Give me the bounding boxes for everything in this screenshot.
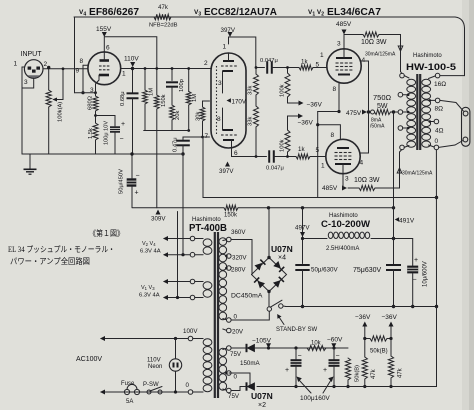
svg-text:10μ/600V: 10μ/600V — [423, 261, 429, 287]
ground symbol — [29, 154, 31, 169]
wire 0.68u drop — [132, 69, 134, 94]
resistor 10k bias — [307, 345, 326, 350]
wire front ground rail — [22, 153, 183, 155]
pointer cap1 — [299, 380, 311, 393]
svg-text:パワー・アンプ全回路図: パワー・アンプ全回路図 — [10, 256, 90, 266]
wire 50u to B+ rail — [131, 187, 133, 208]
svg-text:+: + — [323, 367, 327, 374]
wire 1M2 to bus — [188, 105, 190, 131]
svg-text:50k(B): 50k(B) — [355, 365, 361, 382]
potentiometer VR1 100k(A) — [46, 90, 51, 107]
rectifier bridge U07N — [252, 258, 287, 292]
ECC82 triode2 grid dashes — [221, 134, 224, 136]
svg-text:STAND-BY SW: STAND-BY SW — [276, 327, 317, 333]
svg-text:280V: 280V — [231, 267, 246, 274]
wire 0 HV to standby — [231, 311, 269, 320]
wire 10ohm to OPT bottom — [375, 152, 400, 188]
switch P-SW — [147, 390, 151, 394]
wire EF86 cathode to 680 — [95, 84, 97, 96]
wire input grid line — [43, 68, 88, 70]
svg-text:−60V: −60V — [327, 337, 343, 344]
svg-text:0: 0 — [234, 314, 238, 321]
wire pot to ground — [48, 107, 50, 154]
capacitor 0.047u top — [266, 61, 268, 73]
node -36V row2 — [298, 114, 303, 119]
svg-text:100k: 100k — [280, 139, 286, 152]
svg-text:ECC82/12AU7A: ECC82/12AU7A — [204, 6, 277, 18]
wire ECC82 plate2 to coupling cap — [232, 148, 267, 157]
svg-text:DC450mA: DC450mA — [231, 293, 263, 300]
svg-text:491V: 491V — [399, 218, 415, 225]
svg-text:2.5H/400mA: 2.5H/400mA — [326, 246, 359, 252]
wire 360V to rectifier — [231, 240, 252, 275]
wire heater line A — [177, 212, 179, 298]
OPT secondary coil — [422, 79, 431, 85]
wire 0.68u to ground rail — [132, 99, 134, 155]
EL34 upper plate bar — [336, 57, 352, 59]
svg-text:5: 5 — [316, 62, 320, 69]
OPT secondary tap 16ohm — [435, 73, 440, 78]
lamp 110V neon — [169, 359, 181, 371]
wire NFB line from output transformer to input stage — [74, 16, 455, 18]
wire 75u to ground bus — [393, 270, 395, 307]
svg-text:5W: 5W — [377, 103, 388, 110]
svg-text:475V: 475V — [346, 110, 362, 117]
svg-text:NFB=22dB: NFB=22dB — [149, 23, 178, 29]
current arrow upper — [398, 46, 403, 51]
ECC82 internal divider — [216, 66, 218, 136]
diode U07N upper — [246, 344, 248, 352]
OPT secondary tap 4ohm — [434, 119, 439, 124]
svg-text:170V: 170V — [232, 99, 247, 106]
svg-text:0.68μ: 0.68μ — [120, 91, 126, 106]
capacitor 0.047u bottom — [268, 150, 270, 162]
svg-text:+: + — [414, 257, 418, 264]
wire EL34 lower plate to 10ohm — [342, 174, 344, 189]
svg-text:1: 1 — [122, 71, 126, 78]
svg-text:8: 8 — [80, 58, 84, 65]
svg-text:5A: 5A — [126, 399, 133, 405]
resistor 33k lower — [254, 106, 259, 127]
wire bridge minus to standby — [268, 292, 270, 307]
svg-text:0.047μ: 0.047μ — [260, 58, 278, 64]
svg-text:−: − — [336, 353, 340, 360]
PT bias winding — [219, 348, 227, 356]
svg-text:6.3V 4A: 6.3V 4A — [140, 249, 161, 255]
wire EL34 plate to 10ohm — [343, 35, 345, 49]
wire ECC82 grid2 row — [183, 137, 210, 140]
svg-text:680Ω: 680Ω — [88, 95, 94, 110]
resistor 47k NFB — [154, 14, 171, 20]
OPT primary coil — [407, 79, 416, 85]
svg-text:10Ω 3W: 10Ω 3W — [354, 177, 380, 184]
svg-text:V1 V3: V1 V3 — [141, 285, 155, 291]
OPT core — [416, 74, 418, 150]
wire B+ column — [393, 112, 395, 266]
svg-text:150k: 150k — [224, 213, 238, 219]
OPT secondary tap 8ohm — [435, 98, 440, 103]
svg-text:−: − — [120, 136, 124, 143]
svg-text:+: + — [285, 367, 289, 374]
wire bias tap to diode — [231, 347, 247, 349]
OPT primary tap 2 — [398, 92, 403, 97]
node 397V bottom arrow — [225, 162, 230, 167]
svg-text:100V: 100V — [183, 328, 198, 335]
svg-text:360V: 360V — [231, 229, 246, 236]
resistor 1M — [143, 90, 148, 104]
svg-text:100k: 100k — [280, 84, 286, 97]
svg-text:+: + — [121, 121, 125, 128]
node 485V bottom arrow — [342, 186, 347, 191]
svg-text:0: 0 — [435, 138, 439, 145]
connector speaker jack — [462, 107, 470, 146]
wire NFB to cathode junction — [75, 92, 96, 94]
terminal 750 left — [371, 110, 375, 114]
svg-text:150mA: 150mA — [240, 360, 260, 367]
svg-text:1.5k: 1.5k — [88, 128, 94, 139]
svg-text:1: 1 — [320, 52, 324, 59]
svg-text:6: 6 — [106, 45, 110, 52]
PT heater winding V1V3 — [203, 282, 212, 289]
svg-text:/50mA: /50mA — [370, 124, 385, 130]
wire 10u to ground bus — [412, 274, 414, 307]
svg-text:U07N: U07N — [271, 244, 293, 254]
standby pointer — [279, 317, 284, 325]
svg-text:1: 1 — [223, 44, 227, 51]
capacitor 0.47u — [176, 140, 190, 142]
wire 680 to cathode junction — [95, 111, 97, 123]
wire 100k1 to bias row1 — [287, 97, 289, 103]
OPT secondary tap 0 — [434, 145, 439, 150]
tube V2 EL34 envelope — [326, 139, 360, 173]
svg-text:33k: 33k — [248, 117, 254, 126]
svg-text:100p: 100p — [179, 79, 185, 92]
svg-text:397V: 397V — [219, 168, 234, 175]
node 309V arrow — [156, 210, 161, 215]
ECC82 triode1 plate — [223, 60, 234, 62]
svg-text:497V: 497V — [295, 225, 310, 232]
PT tap 0 bias — [227, 371, 232, 376]
svg-text:320V: 320V — [232, 255, 247, 262]
wire bottom coupling out — [274, 156, 297, 158]
capacitor 100u10V cathode bypass — [110, 126, 120, 132]
wire AC line top — [101, 338, 188, 340]
node 475V arrow — [362, 110, 367, 115]
node -36V row1 — [299, 101, 304, 106]
resistor 10ohm 3W lower — [359, 185, 375, 190]
wire lower 75V tap to diode — [231, 387, 247, 391]
svg-text:8: 8 — [331, 132, 335, 139]
svg-text:+: + — [135, 190, 139, 197]
svg-text:1: 1 — [14, 61, 18, 68]
resistor 150k plate load — [154, 95, 159, 109]
wire 10u column — [412, 239, 414, 266]
svg-text:EL34/6CA7: EL34/6CA7 — [327, 6, 381, 18]
resistor 150k dropper — [224, 205, 238, 210]
resistor 100k upper — [285, 73, 290, 97]
svg-text:V2 V4: V2 V4 — [142, 241, 156, 247]
svg-text:7: 7 — [205, 133, 209, 140]
svg-text:30mA/125mA: 30mA/125mA — [365, 52, 396, 58]
svg-text:47k: 47k — [158, 5, 169, 11]
svg-text:1M: 1M — [192, 94, 198, 102]
node -36V arrow second — [389, 322, 394, 327]
svg-text:485V: 485V — [322, 185, 338, 192]
wire 1.5k to ground rail — [95, 140, 97, 154]
wire 0 tap to jack — [439, 141, 463, 148]
resistor 1k top grid stopper — [299, 65, 313, 70]
EL34 upper cathode — [338, 74, 350, 76]
svg-text:750Ω: 750Ω — [373, 93, 392, 102]
PT tap 320V — [227, 254, 232, 259]
svg-text:Hashimoto: Hashimoto — [413, 53, 442, 59]
EL34 upper grids — [336, 62, 339, 64]
PT tap 280V — [227, 266, 232, 271]
wire B+ rail right part — [238, 207, 394, 209]
PT tap 360V — [227, 237, 232, 242]
wire 33k chain bottom — [255, 127, 257, 157]
svg-text:EF86/6267: EF86/6267 — [89, 6, 139, 18]
resistor 1.5k — [93, 123, 98, 140]
PT core — [214, 232, 216, 398]
wire 1k to EL34 grid — [313, 67, 327, 69]
EF86 plate bar — [100, 59, 110, 62]
resistor 33k upper — [254, 74, 259, 95]
capacitor 0.68u — [127, 92, 139, 94]
PT tap 75V upper — [227, 346, 232, 351]
svg-text:9: 9 — [76, 68, 80, 75]
wire 0.47u to ground rail — [182, 145, 184, 154]
wire input to volume pot — [48, 68, 50, 91]
PT tap 20V — [227, 328, 232, 333]
wire EL34 lower screen — [360, 114, 369, 153]
svg-text:155V: 155V — [96, 26, 112, 33]
wire 50u to ground bus — [302, 270, 304, 307]
node 170V arrow — [227, 98, 231, 102]
svg-text:−36V: −36V — [307, 102, 323, 109]
wire heater V2V4 top — [164, 238, 190, 240]
ECC82 triode1 cathode — [223, 70, 234, 72]
svg-text:30mA/125mA: 30mA/125mA — [402, 171, 433, 177]
wire 497V drop — [302, 208, 304, 264]
wire XLR pin1 to ground rail — [22, 67, 24, 154]
fuse F1 — [124, 389, 129, 394]
wire XLR pin3 to ground — [22, 78, 34, 88]
svg-text:3: 3 — [337, 41, 341, 48]
tube V4 EF86 envelope — [88, 52, 121, 85]
resistor 750ohm 5W — [375, 109, 391, 114]
wire AC line bottom — [101, 391, 188, 393]
node -105V arrow — [266, 343, 271, 348]
wire 100k2 stub — [287, 116, 289, 130]
svg-text:33k: 33k — [248, 86, 254, 95]
svg-text:2: 2 — [204, 60, 208, 67]
wire bridge plus to B+ rail — [268, 208, 270, 258]
svg-text:6.3V 4A: 6.3V 4A — [139, 293, 160, 299]
svg-text:20V: 20V — [232, 329, 244, 336]
wire 100p to 20k — [171, 87, 173, 105]
wire heater V1V3 bottom — [164, 297, 190, 299]
svg-text:485V: 485V — [336, 21, 352, 28]
wire heater V1V3 top — [164, 281, 190, 283]
wire 30k jog — [203, 101, 210, 107]
svg-text:Fuse: Fuse — [121, 381, 135, 387]
svg-text:3: 3 — [218, 80, 222, 87]
svg-text:309V: 309V — [151, 216, 166, 223]
svg-text:C-10-200W: C-10-200W — [321, 219, 370, 230]
svg-text:30k: 30k — [196, 112, 202, 121]
wire ECC82 plate1 to coupling cap — [229, 37, 256, 68]
svg-text:50μ/450V: 50μ/450V — [119, 169, 125, 194]
EF86 grid dashes — [99, 65, 102, 67]
svg-text:10Ω 3W: 10Ω 3W — [361, 39, 387, 46]
svg-text:4Ω: 4Ω — [435, 128, 444, 135]
svg-text:−: − — [298, 353, 302, 360]
wire network bus — [144, 130, 189, 132]
wire bias rail to ground bus — [435, 307, 437, 387]
svg-text:HW-100-5: HW-100-5 — [406, 62, 457, 73]
OPT primary terminal top — [400, 73, 405, 78]
svg-text:50μ/630V: 50μ/630V — [311, 267, 338, 274]
current arrow lower — [397, 168, 402, 173]
wire ground bus — [286, 306, 437, 308]
OPT primary tap 4 — [398, 126, 403, 131]
node 110V arrow — [130, 62, 135, 67]
svg-text:100μ 10V: 100μ 10V — [104, 121, 110, 145]
resistor 30k — [200, 107, 205, 121]
capacitor 10u600V — [407, 266, 418, 274]
svg-text:1k: 1k — [298, 146, 305, 153]
wire ground rail to 50u cap — [131, 154, 133, 178]
EL34 lower grids — [335, 152, 338, 154]
pointer cap2 — [323, 380, 331, 393]
wire NFB to 16ohm tap — [440, 75, 465, 77]
svg-text:2: 2 — [44, 61, 48, 68]
resistor 47k second — [390, 339, 392, 357]
svg-text:0.047μ: 0.047μ — [266, 166, 284, 172]
svg-text:8Ω: 8Ω — [435, 106, 444, 113]
node 491V arrow — [395, 217, 399, 221]
svg-text:75V: 75V — [228, 393, 240, 400]
PT tap 75V lower — [227, 388, 232, 393]
connector J1 input XLR — [24, 60, 43, 79]
wire B+ rail 309V-497V — [133, 207, 225, 209]
EL34 lower plate bar — [335, 163, 351, 165]
svg-text:0: 0 — [186, 382, 190, 389]
wire 8ohm to jack — [440, 100, 463, 111]
svg-text:100μ160V: 100μ160V — [300, 395, 330, 402]
svg-text:×2: ×2 — [258, 402, 266, 409]
node -60V arrow — [331, 343, 336, 348]
node 497V arrow — [300, 232, 305, 237]
pot wiper arrow — [52, 98, 57, 102]
wire 20k to bus — [171, 120, 173, 131]
svg-text:AC100V: AC100V — [76, 356, 102, 363]
svg-text:P-SW: P-SW — [143, 382, 159, 388]
tube V3 ECC82 envelope — [211, 53, 246, 148]
EF86 cathode bar — [99, 74, 109, 77]
wire bias bottom rail — [257, 386, 435, 388]
svg-text:−36V: −36V — [298, 120, 314, 127]
svg-text:100k(A): 100k(A) — [58, 102, 64, 122]
svg-text:47k: 47k — [398, 367, 404, 378]
capacitor 50u450V — [127, 178, 137, 186]
svg-text:8: 8 — [217, 116, 221, 123]
wire 33k chain top — [255, 68, 257, 75]
wire cathode junction to bypass cap — [96, 116, 116, 127]
resistor 1M second — [186, 92, 191, 106]
wire 0 tap to ground bus — [435, 150, 437, 307]
svg-text:1: 1 — [321, 163, 325, 170]
wire heater V2V4 bottom — [164, 254, 190, 256]
resistor 47k first — [364, 339, 366, 358]
svg-text:−36V: −36V — [355, 314, 371, 321]
resistor 100k lower — [285, 130, 290, 152]
capacitor 100u160V second — [333, 348, 335, 359]
svg-text:20k: 20k — [175, 111, 181, 120]
tube V1 EL34 envelope — [327, 49, 361, 83]
wire 100k2 to row — [287, 152, 289, 157]
svg-text:16Ω: 16Ω — [434, 81, 446, 88]
node 485V top arrow — [342, 30, 347, 35]
capacitor 100u160V first — [295, 348, 297, 359]
svg-text:75μ630V: 75μ630V — [353, 267, 381, 274]
svg-text:3: 3 — [24, 79, 28, 86]
diode U07N lower — [246, 382, 248, 390]
capacitor 100p — [166, 81, 178, 83]
choke L1 C-10-200W — [328, 232, 333, 238]
PT primary winding — [203, 339, 212, 346]
OPT primary tap B+ — [398, 110, 403, 115]
svg-text:0: 0 — [234, 374, 238, 381]
wire standby to ground bus — [283, 305, 286, 308]
wire 750 to B+ — [391, 111, 394, 113]
wire 30k to grid2 row — [202, 121, 204, 137]
wire heater line B — [182, 154, 184, 255]
svg-text:5: 5 — [316, 147, 320, 154]
svg-text:0.47μ: 0.47μ — [173, 137, 179, 152]
svg-text:4: 4 — [360, 160, 364, 167]
svg-text:Neon: Neon — [148, 364, 162, 370]
wire 0 bias to rail — [229, 373, 250, 387]
EL34 lower cathode — [337, 147, 349, 149]
svg-text:×4: ×4 — [278, 255, 286, 262]
wire diode to -105V node — [255, 347, 348, 349]
resistor 50kB horizontal — [370, 336, 387, 341]
node 155V arrow — [102, 32, 107, 37]
svg-text:110V: 110V — [124, 56, 139, 63]
svg-text:8: 8 — [333, 86, 337, 93]
PT HV winding — [219, 238, 227, 246]
wire 10ohm to OPT top — [379, 35, 401, 72]
PT tap 0 HV — [227, 318, 232, 323]
svg-text:《第１図》: 《第１図》 — [89, 228, 124, 238]
capacitor 50u630V — [295, 264, 309, 266]
wire 1M2 drop — [188, 69, 190, 92]
wire 100p drop — [171, 69, 173, 81]
switch stand-by — [267, 307, 271, 311]
wire bypass cap to ground — [114, 132, 116, 154]
resistor 50kB vertical — [345, 358, 350, 380]
node 397V top arrow — [228, 32, 233, 37]
svg-text:EL 34 プッシュプル・モノーラル・: EL 34 プッシュプル・モノーラル・ — [8, 245, 115, 254]
svg-text:1M: 1M — [149, 88, 155, 96]
wire -36V column b — [390, 327, 392, 339]
ECC82 triode2 cathode — [223, 129, 234, 131]
svg-text:150k: 150k — [161, 94, 167, 107]
wire EL34 lower cathode up — [318, 125, 341, 140]
PT heater winding V2V4 — [203, 239, 212, 246]
